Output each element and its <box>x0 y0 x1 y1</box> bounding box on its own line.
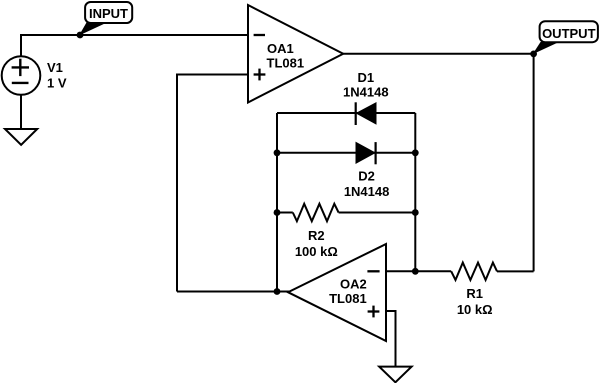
svg-text:10 kΩ: 10 kΩ <box>457 302 493 317</box>
wire OA2 plus input to ground <box>386 311 396 367</box>
diode D2 <box>356 142 376 164</box>
wire left rail vertical <box>276 113 278 292</box>
svg-text:OA1: OA1 <box>267 41 294 56</box>
op-amp OA2 <box>288 244 386 341</box>
wire V1 top lead <box>20 35 22 57</box>
svg-text:100 kΩ: 100 kΩ <box>295 244 338 259</box>
wire feedback bottom horizontal <box>177 291 289 293</box>
node OUTPUT junction dot <box>530 51 537 58</box>
svg-text:OUTPUT: OUTPUT <box>542 26 596 41</box>
node junction dot left rail R2 <box>274 209 281 216</box>
node INPUT junction dot <box>77 32 84 39</box>
node junction dot right rail R2 <box>412 209 419 216</box>
node junction dot left rail D2 <box>274 149 281 156</box>
diode D1 <box>356 102 376 125</box>
svg-text:1 V: 1 V <box>47 76 67 91</box>
wire right rail vertical <box>414 113 416 271</box>
svg-text:V1: V1 <box>47 60 63 75</box>
node junction dot left rail bottom <box>274 288 281 295</box>
wire R1 right lead <box>497 270 534 272</box>
svg-text:INPUT: INPUT <box>89 6 128 21</box>
wire output vertical <box>533 54 535 272</box>
resistor R1 <box>451 263 497 280</box>
voltage source V1 <box>2 56 41 95</box>
ground GND2 <box>379 367 411 383</box>
wire OA2 minus input <box>386 270 415 272</box>
wire OA1 output <box>343 53 533 55</box>
flag OUTPUT <box>533 21 598 54</box>
wire feedback vertical <box>176 74 178 292</box>
wire input net horizontal <box>20 34 248 36</box>
op-amp OA1 <box>248 5 343 103</box>
svg-text:R1: R1 <box>466 286 483 301</box>
wire R2 right lead <box>339 212 416 214</box>
wire V1 bottom lead <box>20 95 22 130</box>
svg-text:1N4148: 1N4148 <box>344 184 390 199</box>
resistor R2 <box>293 204 339 221</box>
wire R1 left lead <box>415 270 451 272</box>
wire D1 branch <box>277 112 415 114</box>
wire R2 left lead <box>277 212 293 214</box>
svg-text:D2: D2 <box>358 169 375 184</box>
wire OA1 plus input <box>177 74 248 76</box>
svg-text:TL081: TL081 <box>329 291 367 306</box>
node junction dot OA2 minus / R1 <box>412 268 419 275</box>
svg-text:1N4148: 1N4148 <box>343 85 389 100</box>
svg-text:R2: R2 <box>308 228 325 243</box>
wire D2 branch <box>277 152 415 154</box>
node junction dot right rail D2 <box>412 149 419 156</box>
svg-text:TL081: TL081 <box>267 56 305 71</box>
svg-text:OA2: OA2 <box>340 277 367 292</box>
svg-text:D1: D1 <box>357 70 374 85</box>
ground GND1 <box>5 129 37 145</box>
flag INPUT <box>79 2 132 36</box>
